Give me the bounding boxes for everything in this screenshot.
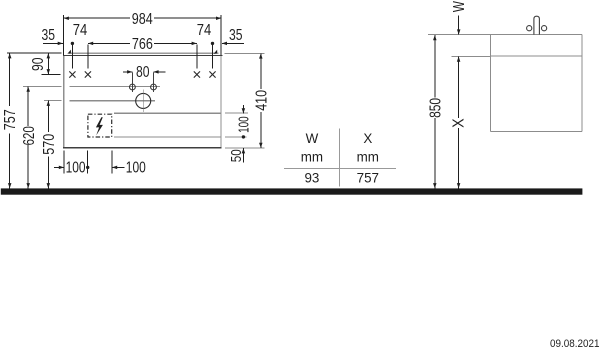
dim 90 line: [47, 53, 49, 74]
svg-text:X: X: [363, 131, 372, 146]
dim 35 left arrow: [43, 42, 63, 44]
dim 90 bottom extension: [42, 73, 61, 75]
svg-text:984: 984: [132, 11, 153, 28]
svg-text:W: W: [306, 131, 319, 146]
right extension at cabinet bottom: [225, 147, 265, 149]
svg-text:757: 757: [357, 171, 379, 186]
dim 74 right dot: [211, 42, 214, 45]
countertop step mark left: [67, 50, 71, 54]
dim 35 right arrow: [222, 42, 244, 44]
svg-text:90: 90: [30, 57, 47, 71]
right extension at top surface: [225, 52, 265, 54]
svg-text:850: 850: [427, 98, 444, 118]
dim 570 line: [47, 101, 49, 132]
svg-text:74: 74: [73, 22, 88, 39]
drawer cutout bottom line: [114, 136, 221, 138]
bottom extension line 1: [63, 150, 65, 173]
hanger mark x2: [85, 71, 91, 77]
faucet hole right: [151, 84, 157, 90]
dim X line: [458, 57, 460, 119]
dim W arrow: [458, 16, 460, 35]
dim 100 second arrow: [112, 166, 124, 168]
side view top surface line: [428, 34, 582, 36]
svg-text:766: 766: [132, 36, 153, 53]
bottom extension line 2: [87, 150, 89, 173]
countertop top line: [69, 52, 219, 54]
table column divider: [339, 128, 341, 186]
side view drawer top line: [490, 55, 582, 57]
hanger mark x4: [209, 71, 215, 77]
side view cabinet right edge: [581, 35, 583, 132]
faucet handle right: [542, 26, 547, 31]
hanger mark x3: [194, 71, 200, 77]
dim 74 left dot: [71, 42, 74, 45]
svg-text:mm: mm: [357, 150, 379, 165]
basin front line: [69, 100, 155, 102]
electrical box dashed: [88, 114, 112, 137]
drain centerline: [142, 89, 144, 112]
svg-text:100: 100: [126, 160, 146, 177]
X extension line: [451, 55, 490, 57]
faucet hole centerline right: [153, 72, 155, 92]
hanger extension line 1: [71, 43, 73, 68]
basin back line: [69, 86, 160, 88]
svg-text:09.08.2021: 09.08.2021: [550, 338, 600, 347]
svg-text:74: 74: [197, 22, 212, 39]
right extension at cutout bottom: [225, 136, 247, 138]
right extension at cutout top: [225, 112, 248, 114]
svg-text:50: 50: [229, 149, 245, 162]
dim 850 line: [434, 35, 436, 98]
hanger mark x1: [69, 71, 75, 77]
side view cabinet bottom edge: [490, 130, 582, 132]
dim 984 extension line left: [63, 15, 65, 55]
lightning bolt: [96, 117, 103, 135]
hanger extension line 3: [196, 45, 198, 69]
svg-text:mm: mm: [301, 150, 323, 165]
faucet hole left: [130, 84, 136, 90]
left extension line at top surface: [7, 52, 62, 54]
faucet body: [534, 16, 540, 34]
hanger extension line 2: [87, 45, 89, 69]
faucet hole centerline left: [131, 72, 133, 92]
table header divider: [284, 168, 396, 170]
svg-text:100: 100: [235, 116, 252, 132]
svg-text:570: 570: [41, 133, 58, 154]
dim 984 extension line right: [220, 15, 222, 55]
svg-text:100: 100: [66, 160, 86, 177]
svg-text:X: X: [451, 118, 468, 128]
svg-text:35: 35: [229, 27, 243, 44]
cabinet front view outline: [64, 55, 221, 147]
svg-text:80: 80: [136, 64, 150, 81]
dim 757 line: [9, 53, 11, 106]
dim 50 arrow from below: [242, 148, 244, 162]
side view cabinet left edge: [489, 35, 491, 132]
cabinet top edge: [63, 54, 222, 56]
dim 100 right dot: [242, 135, 245, 138]
svg-text:410: 410: [253, 90, 270, 111]
dim 80 arrows: [123, 71, 133, 73]
dim 620 line: [27, 87, 29, 127]
dim 410 line: [260, 53, 262, 89]
svg-text:93: 93: [304, 171, 319, 186]
left extension line at basin back: [23, 86, 62, 88]
dim 100 right arrow from above: [242, 105, 244, 114]
hanger extension line 4: [212, 43, 214, 68]
dim 100 first dot: [86, 166, 89, 169]
dim 100 first arrow: [54, 166, 64, 168]
cabinet bottom edge: [63, 147, 221, 149]
dim 766 line: [88, 42, 130, 44]
countertop step mark right: [214, 50, 218, 54]
svg-text:620: 620: [21, 126, 38, 146]
left extension line at basin front: [44, 100, 62, 102]
bottom extension line 3: [111, 150, 113, 173]
drawer cutout top line: [114, 112, 221, 114]
dim 984 line: [64, 17, 130, 19]
svg-text:757: 757: [2, 109, 19, 130]
floor line: [1, 188, 583, 194]
drain hole: [136, 93, 151, 108]
faucet handle left: [527, 26, 532, 31]
svg-text:35: 35: [42, 27, 56, 44]
svg-text:W: W: [451, 1, 468, 12]
